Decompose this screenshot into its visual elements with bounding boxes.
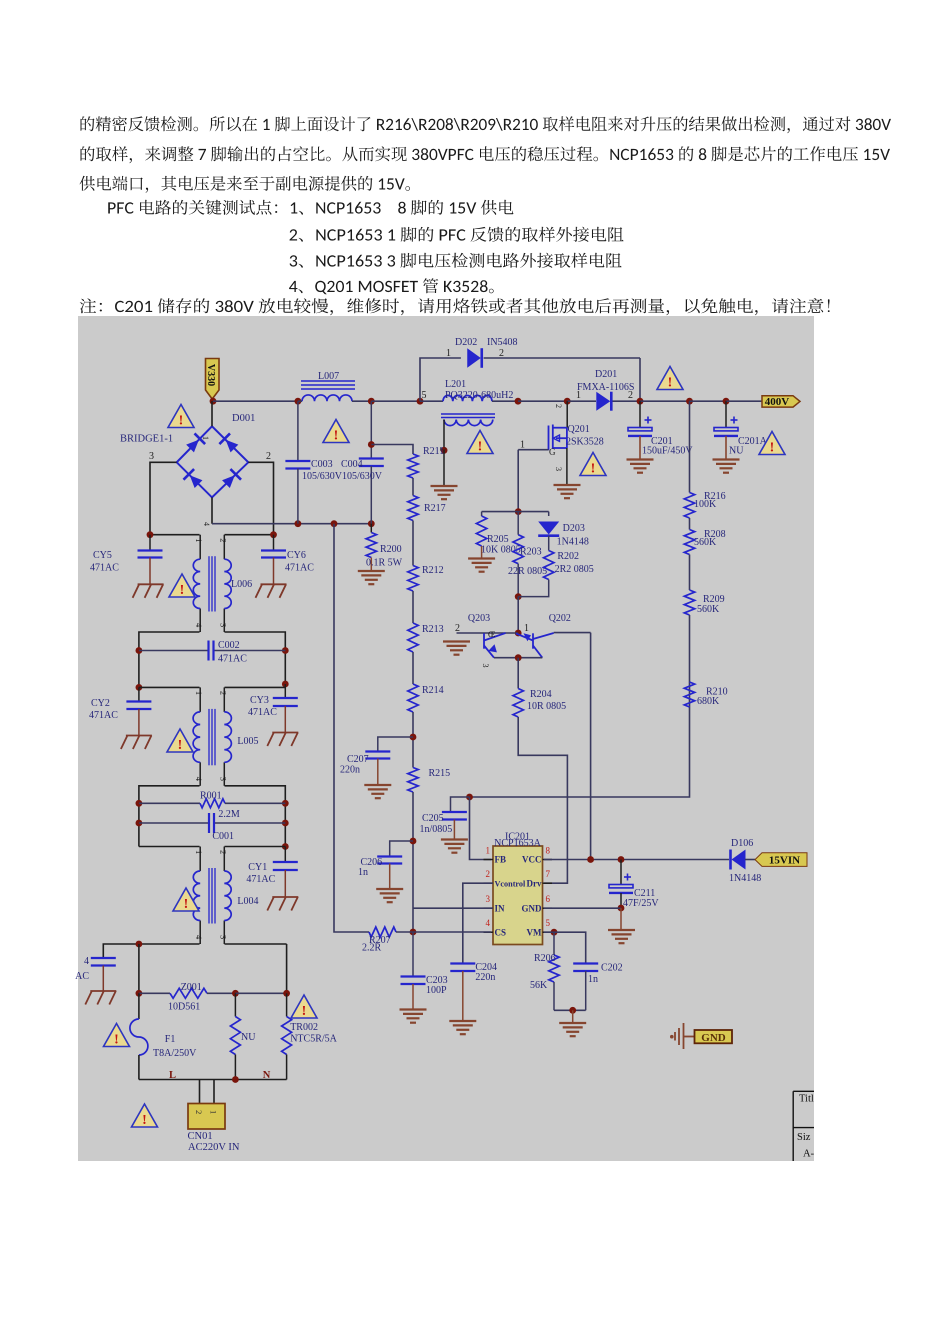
junction C002 right [282,647,289,654]
warning near Q201 [580,453,606,477]
wire gate node vert [517,450,519,512]
wire D203 top [548,512,550,516]
wire row right [225,943,287,945]
wire C201 top [639,401,641,427]
junction C003 [295,398,302,405]
svg-text:D001: D001 [232,413,255,424]
wire [412,478,414,496]
svg-text:A-: A- [803,1149,815,1160]
wire [412,521,414,566]
svg-text:1N4148: 1N4148 [557,537,589,548]
svg-text:1: 1 [201,436,210,440]
svg-text:2: 2 [554,404,563,408]
svg-text:5: 5 [546,918,551,928]
svg-text:NU: NU [241,1032,256,1043]
svg-text:8: 8 [546,846,551,856]
resistor NU [230,1017,240,1055]
wire to R204 [517,658,519,689]
svg-text:VM: VM [527,927,542,937]
svg-text:Q202: Q202 [549,613,571,624]
inductor L007 [301,381,355,389]
wire L005 row left [139,686,200,688]
resistor R208 [684,530,694,555]
resistor R212 [408,566,418,592]
wire CY6 row [225,534,274,536]
wire V330 to bus [212,399,214,401]
svg-text:PQ3220-680uH2: PQ3220-680uH2 [445,390,513,401]
svg-text:CY5: CY5 [93,550,112,561]
capacitor C201 [628,428,652,431]
junction Q201 drain [564,398,571,405]
svg-text:Vcontrol: Vcontrol [495,879,527,888]
junction emitters [515,654,522,661]
resistor R209 [684,590,694,615]
svg-text:15VIN: 15VIN [769,855,800,867]
junction CY3 [282,681,289,688]
svg-text:2: 2 [218,691,228,695]
svg-text:R205: R205 [487,534,509,545]
svg-text:Q203: Q203 [468,613,490,624]
svg-text:471AC: 471AC [89,710,118,721]
capacitor C211 [609,885,633,888]
svg-text:2: 2 [218,850,228,854]
ground C204 [449,1021,476,1034]
wire L007 to C004 node [352,400,371,402]
connector CN01 [199,1080,201,1104]
wire C206 [390,841,413,857]
diode D201 [596,392,610,411]
svg-text:R217: R217 [424,503,446,514]
svg-text:2.2M: 2.2M [218,809,240,820]
svg-text:CY2: CY2 [91,698,110,709]
svg-text:D106: D106 [731,838,753,849]
junction Z001 rail [136,941,143,948]
junction R001 left [136,800,143,807]
wire R200 gnd [370,558,372,572]
svg-text:150uF/450V: 150uF/450V [642,446,693,457]
resistor R205 [476,516,486,546]
svg-text:471AC: 471AC [90,563,119,574]
svg-text:5: 5 [422,390,427,401]
svg-text:BRIDGE1-1: BRIDGE1-1 [120,434,173,445]
wire C004 vert [370,401,372,458]
wire CY6 stem [273,535,275,551]
inductor L201 [443,395,492,401]
wire CY5 row [150,534,200,536]
wire CY4 row [103,944,199,958]
ground C206 [376,889,403,902]
svg-text:VCC: VCC [522,855,542,865]
transistor Q202 [516,633,554,658]
schematic background [78,316,814,1161]
svg-text:3: 3 [218,777,228,781]
svg-text:7: 7 [546,869,551,879]
svg-text:CY1: CY1 [248,862,267,873]
svg-text:!: ! [180,583,185,598]
wire to L201 [420,400,443,402]
svg-text:560K: 560K [694,537,717,548]
wire [412,652,414,684]
svg-text:4: 4 [194,935,204,940]
svg-text:2: 2 [194,1110,204,1114]
resistor R216 [684,493,694,519]
capacitor CY5 [138,551,163,558]
wire VCC to D106 [544,859,729,861]
resistor R200 [366,533,376,558]
svg-text:!: ! [591,461,596,476]
svg-text:2: 2 [628,390,633,401]
warning near transformer L006 [169,574,195,598]
wire D202 down [639,358,641,401]
svg-text:L: L [169,1070,176,1081]
junction C211 [618,856,625,863]
wire D202 branch up [420,358,461,401]
wire CY2 stem [138,687,140,701]
warning near transformer L005 [167,729,193,753]
svg-text:C207: C207 [347,754,369,765]
capacitor C201A [714,428,738,431]
svg-text:FB: FB [495,855,507,865]
junction CY6 [270,531,277,538]
junction C206 [410,838,417,845]
wire R206/C202 bottom [554,1009,586,1011]
svg-text:D203: D203 [563,523,585,534]
junction C201A [723,398,730,405]
wire divider to FB node [470,682,690,797]
wire IN [413,907,493,909]
svg-text:471AC: 471AC [246,874,275,885]
wire L004 row left [139,846,200,848]
wire Q201 source [566,448,568,485]
svg-text:D202: D202 [455,337,477,348]
wire to 400V tag [726,400,762,402]
svg-text:C205: C205 [422,813,444,824]
svg-text:2: 2 [266,451,271,462]
wire CY3 stem [284,684,286,698]
transformer L006 [199,535,201,560]
junction NU top [232,990,239,997]
capacitor C203 [401,977,426,985]
svg-text:1: 1 [524,623,529,634]
svg-text:R215: R215 [429,768,451,779]
wire bridge pin2 down [248,462,273,534]
wire D202 to 400V node [484,357,640,359]
capacitor CY2 [126,702,151,710]
svg-text:!: ! [179,413,184,428]
wire C003 vert [297,401,299,461]
junction V330/bridge [210,398,217,405]
ground R200 [358,571,385,584]
earth ground CY2 [121,736,152,750]
svg-text:2: 2 [499,348,504,359]
svg-text:C202: C202 [601,963,623,974]
svg-text:F1: F1 [165,1034,176,1045]
wire R206 top [553,932,555,955]
svg-text:GND: GND [522,903,543,913]
svg-text:D201: D201 [595,369,617,380]
junction C211/GND [618,905,625,912]
ground C205 [441,840,468,853]
svg-text:TR002: TR002 [290,1022,318,1033]
svg-text:R203: R203 [520,547,542,558]
junction C004 [368,398,375,405]
svg-text:1: 1 [576,390,581,401]
svg-text:4: 4 [194,777,204,782]
resistor R217 [408,496,418,521]
svg-text:!: ! [178,738,183,753]
svg-text:3: 3 [218,935,228,939]
warning near transformer L004 [173,888,199,912]
wire 400V bus 2 [690,400,727,402]
svg-text:FMXA-1106S: FMXA-1106S [577,382,634,393]
wire L005 pin4 down [139,786,200,847]
wire L004 row right [225,846,286,848]
svg-text:R214: R214 [422,685,444,696]
wire R211 branch [371,445,413,455]
wire chain to CS [412,792,414,932]
svg-text:3: 3 [149,451,154,462]
svg-text:1: 1 [209,1110,219,1114]
diode D202 [467,348,481,368]
svg-text:2R2 0805: 2R2 0805 [555,564,594,575]
resistor R204 [513,689,523,718]
junction D202 branch [417,398,424,405]
svg-text:G: G [549,447,556,457]
wire top bus left [213,400,298,402]
ground R206/C202 [559,1023,586,1036]
svg-text:CN01: CN01 [188,1131,213,1142]
capacitor C205 [442,812,467,820]
wire to D202 branch [371,400,420,402]
svg-text:NCP1653A: NCP1653A [494,838,541,849]
svg-text:L007: L007 [318,371,339,382]
svg-text:AC220V IN: AC220V IN [188,1142,240,1153]
junction bases [515,630,522,637]
warning near C003 [323,420,349,444]
wire C203 [412,932,414,977]
svg-text:471AC: 471AC [218,654,247,665]
resistor R207 [369,927,396,937]
capacitor CY1 [273,862,298,870]
junction R216 chain [686,398,693,405]
wire R202 bottom [518,580,549,597]
svg-text:47F/25V: 47F/25V [623,898,659,909]
svg-text:NU: NU [729,446,744,457]
ground L201 [431,486,458,499]
junction CY2 [136,684,143,691]
wire emitters [494,657,542,659]
earth ground CY4 [85,991,116,1005]
svg-text:Drv: Drv [527,878,542,888]
svg-text:R204: R204 [530,689,552,700]
wire L006 pin4 down [139,632,200,687]
svg-text:GND: GND [701,1032,726,1044]
svg-text:2: 2 [486,869,491,879]
svg-text:4: 4 [202,522,211,526]
junction C001 right [282,820,289,827]
svg-text:L006: L006 [231,579,252,590]
svg-text:56K: 56K [530,980,548,991]
wire L005 pin3 down [225,786,286,847]
svg-text:220n: 220n [340,765,360,776]
svg-text:V330: V330 [205,364,216,386]
capacitor CY4 [91,958,116,966]
svg-text:!: ! [184,897,189,912]
svg-text:10D561: 10D561 [168,1002,200,1013]
wire L005 row right [225,686,286,688]
svg-text:!: ! [302,1004,307,1019]
svg-text:471AC: 471AC [285,563,314,574]
svg-text:R211: R211 [423,446,444,457]
ground C203 [400,1010,427,1023]
wire [412,591,414,623]
svg-text:AC: AC [75,971,89,982]
svg-text:R200: R200 [380,544,402,555]
junction Z001 left [136,990,143,997]
junction C207 [410,734,417,741]
svg-text:560K: 560K [697,604,720,615]
wire left rail down [138,944,140,993]
bridge rectifier D001 [177,426,249,497]
wire [412,712,414,768]
ground C201A [713,460,740,473]
wire bottom bus [212,523,371,525]
capacitor C206 [377,857,402,864]
junction R001 right [282,800,289,807]
wire sense line [334,524,369,932]
junction R203/R202 [515,593,522,600]
wire FB [470,797,492,860]
IC201 pin 4 CS [484,931,494,933]
IC201 pin 7 Drv [543,882,553,884]
svg-text:!: ! [142,1113,147,1128]
resistor R211 [408,454,418,478]
diode D106 [732,850,746,870]
svg-text:2: 2 [455,623,460,634]
wire [689,615,691,682]
svg-text:1: 1 [194,850,204,854]
wire L006 pin3 down [225,632,286,684]
svg-text:!: ! [770,440,775,455]
svg-text:R213: R213 [422,624,444,635]
svg-text:2: 2 [218,538,228,542]
svg-text:IN5408: IN5408 [487,337,518,348]
wire C207 [378,737,413,752]
capacitor C001 plates [209,813,214,833]
warning near CN01 [132,1104,158,1128]
wire to bases [517,597,519,633]
svg-text:CY3: CY3 [250,695,269,706]
IC U201 NCP1653A body [493,846,543,945]
wire CY1 stem [284,847,286,863]
wire R205 top [481,512,483,516]
wire bridge pin3 down [150,462,177,534]
junction VM [551,929,558,936]
transformer L004 [199,847,201,872]
junction L201/bus [515,398,522,405]
svg-text:T8A/250V: T8A/250V [153,1048,197,1059]
warning near 400V [657,367,683,391]
IC201 pin 5 VM [543,931,553,933]
wire C205 [451,797,470,812]
resistor R001 [139,802,200,804]
svg-text:1n: 1n [588,974,598,985]
IC201 pin 2 Vcontrol [484,882,494,884]
wire NU top [234,993,236,1016]
svg-text:22R 0805: 22R 0805 [508,566,547,577]
svg-text:3: 3 [218,623,228,627]
wire VM to C202 [544,932,586,963]
IC201 pin 3 IN [484,907,494,909]
svg-text:Siz: Siz [797,1132,811,1143]
earth ground CY6 [256,584,287,598]
junction C001 left [136,820,143,827]
wire L201 secondary to ground [443,420,445,451]
svg-text:C002: C002 [218,640,240,651]
capacitor C002 [139,650,209,652]
svg-text:2SK3528: 2SK3528 [566,437,604,448]
junction CS node [410,929,417,936]
earth ground CY1 [267,897,298,911]
svg-text:IN: IN [495,903,506,913]
svg-text:NTC5R/5A: NTC5R/5A [290,1034,337,1045]
svg-text:L004: L004 [237,896,258,907]
svg-text:Œ: Œ [488,629,496,639]
thermistor TR002 [282,1017,292,1055]
wire R204 to Drv [518,717,567,883]
wire CY5 stem [149,535,151,551]
junction N [232,1076,239,1083]
fuse F1 [138,993,140,1019]
wire right rail down [286,944,288,993]
junction Q202/VCC [587,856,594,863]
svg-text:1: 1 [194,691,204,695]
wire C201A to gnd [725,436,727,460]
svg-text:6: 6 [546,894,551,904]
earth ground CY5 [133,584,164,598]
transistor Q203 [457,632,519,634]
resistor R210 [684,682,694,707]
svg-text:R212: R212 [422,565,444,576]
capacitor CY6 [261,551,286,558]
wire TR002 top [286,993,288,1016]
varistor Z001 zigzag [170,988,207,998]
junction FB/C205 [466,794,473,801]
svg-text:220n: 220n [475,972,495,983]
warning near F1 [104,1024,130,1048]
svg-text:Z001: Z001 [181,982,202,993]
svg-text:100P: 100P [426,985,447,996]
warning near TR002 [291,995,317,1019]
svg-text:N: N [263,1070,271,1081]
svg-text:C001: C001 [212,831,234,842]
svg-text:10R 0805: 10R 0805 [527,701,566,712]
resistor R214 [408,684,418,712]
svg-text:2.2R: 2.2R [362,943,382,954]
IC201 pin 8 VCC [543,859,553,861]
svg-text:!: ! [668,375,673,390]
net label 400V [762,396,800,409]
svg-text:R202: R202 [557,551,579,562]
wire gate node horiz [482,511,549,513]
capacitor C003 [285,461,310,469]
capacitor C204 [450,964,475,972]
capacitor C207 [365,752,390,759]
junction C002 left [136,647,143,654]
resistor R202 [544,551,554,580]
wire [689,555,691,591]
svg-text:1: 1 [446,348,451,359]
